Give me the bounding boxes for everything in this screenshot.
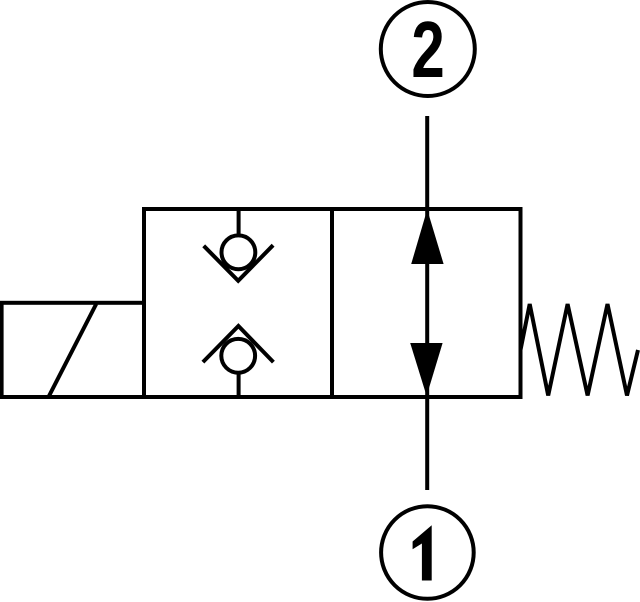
check valve CV1 seat	[204, 245, 273, 281]
wire valve body to port 1	[425, 397, 429, 490]
check valve CV2 stem	[237, 372, 241, 399]
port circle 1	[381, 506, 474, 599]
valve body divider	[330, 209, 334, 397]
solenoid box	[2, 303, 144, 397]
flow path arrow line	[425, 211, 429, 395]
port circle 2	[381, 2, 475, 96]
check valve CV1 ball	[222, 235, 256, 269]
port label 2	[411, 5, 444, 94]
arrowhead down	[410, 343, 442, 396]
check valve CV2 ball	[221, 339, 255, 373]
port label 1	[413, 525, 432, 580]
check valve CV1 stem	[237, 209, 241, 237]
arrowhead up	[411, 210, 443, 265]
valve body outline	[144, 209, 521, 397]
solenoid slash	[49, 304, 96, 396]
return spring	[521, 304, 639, 396]
check valve CV2 seat	[203, 326, 274, 362]
wire port 2 to valve body	[425, 116, 429, 209]
svg-text:2: 2	[411, 5, 444, 94]
